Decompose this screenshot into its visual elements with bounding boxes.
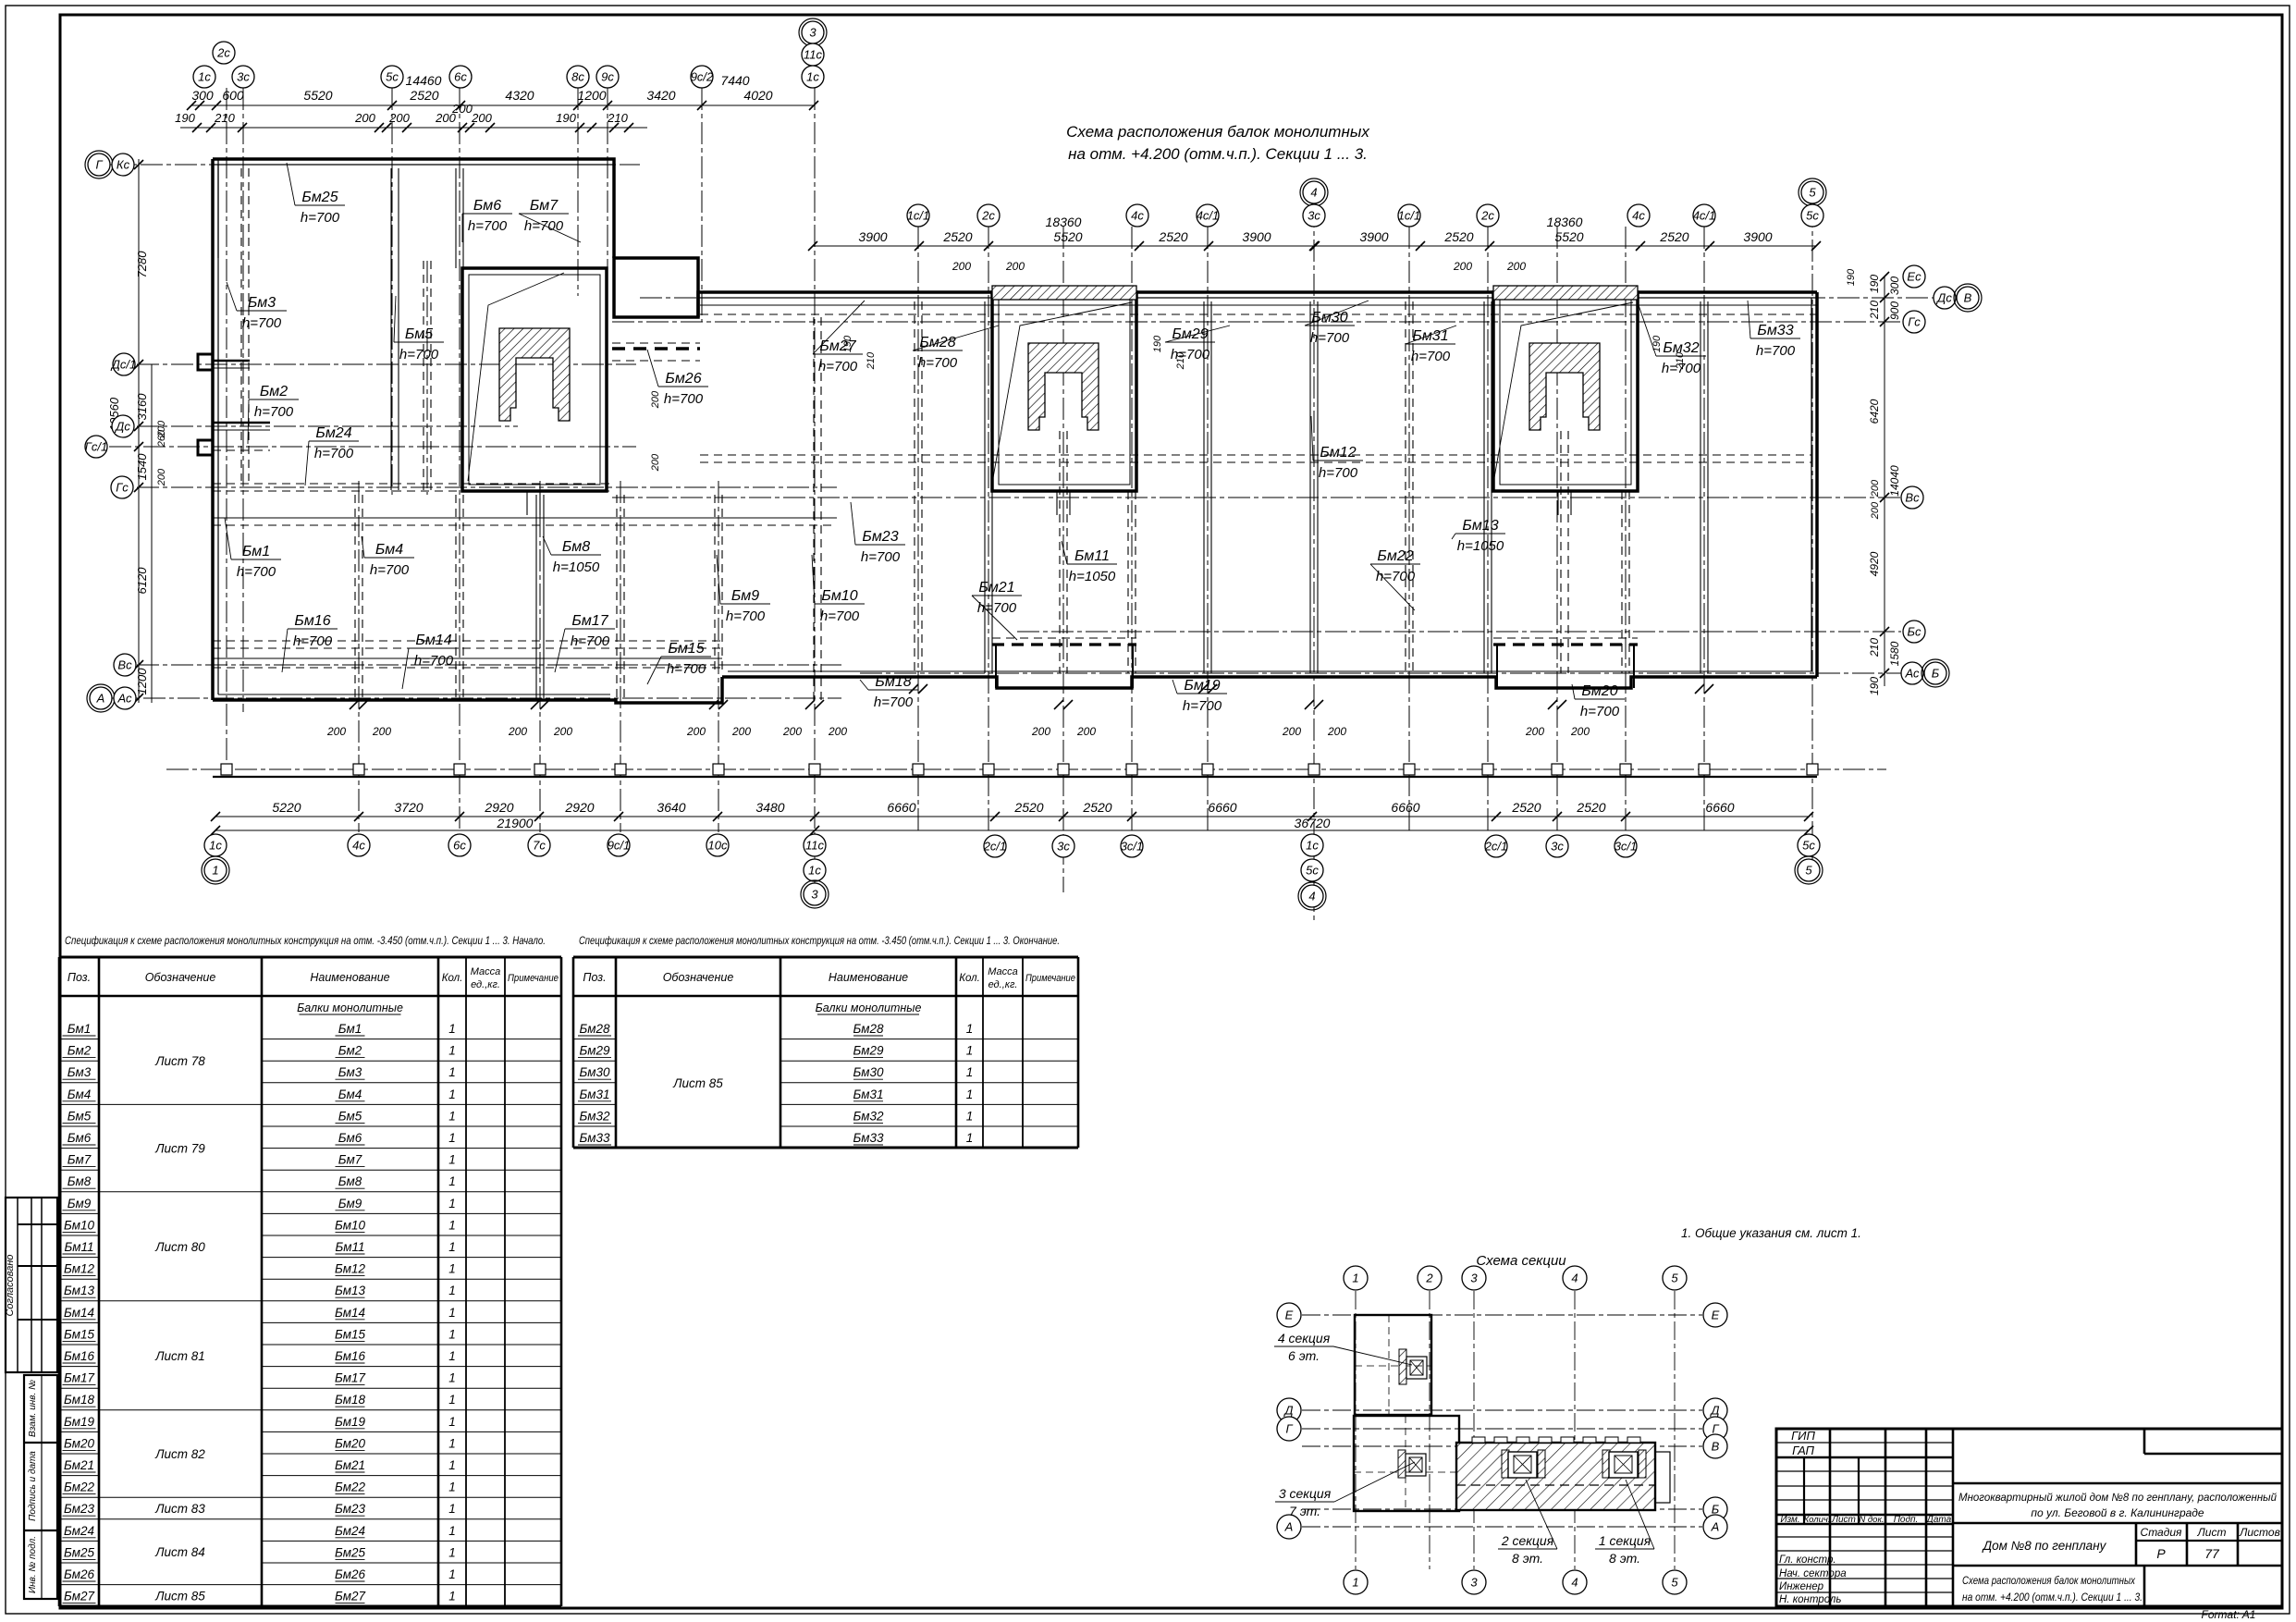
- svg-text:Бм4: Бм4: [68, 1087, 92, 1101]
- svg-text:5520: 5520: [1554, 229, 1583, 244]
- svg-text:1: 1: [448, 1481, 456, 1494]
- svg-text:190: 190: [1651, 335, 1663, 352]
- svg-text:200: 200: [372, 725, 391, 738]
- svg-text:Бм20: Бм20: [1581, 683, 1617, 699]
- axis circles right: [1903, 265, 1925, 288]
- svg-text:Лист 80: Лист 80: [154, 1240, 205, 1254]
- svg-text:Д: Д: [1709, 1404, 1719, 1418]
- svg-text:Дс/1: Дс/1: [110, 358, 137, 372]
- svg-text:Бм18: Бм18: [64, 1393, 95, 1407]
- svg-text:21900: 21900: [497, 816, 534, 830]
- svg-text:Бм5: Бм5: [405, 326, 433, 342]
- svg-text:8 эт.: 8 эт.: [1609, 1551, 1640, 1566]
- svg-text:h=700: h=700: [468, 218, 508, 234]
- svg-text:Г: Г: [1285, 1422, 1293, 1436]
- svg-text:1: 1: [448, 1262, 456, 1276]
- svg-text:3420: 3420: [646, 88, 675, 103]
- svg-text:1c: 1c: [198, 70, 211, 84]
- left part beam lines at Vc axis: [213, 657, 722, 659]
- svg-text:18360: 18360: [1046, 215, 1082, 229]
- svg-text:1c: 1c: [808, 864, 821, 878]
- svg-text:Ас: Ас: [117, 692, 132, 706]
- svg-text:1: 1: [448, 1218, 456, 1232]
- svg-text:h=700: h=700: [1580, 704, 1620, 719]
- svg-text:Бм21: Бм21: [335, 1458, 365, 1472]
- svg-text:Бм23: Бм23: [862, 529, 898, 545]
- svg-text:1: 1: [448, 1044, 456, 1058]
- svg-text:Бм31: Бм31: [579, 1087, 609, 1101]
- svg-text:Бс: Бс: [1908, 625, 1922, 639]
- svg-text:Format: A1: Format: A1: [2202, 1608, 2256, 1621]
- svg-text:h=700: h=700: [726, 608, 766, 624]
- svg-text:1: 1: [448, 1590, 456, 1604]
- svg-text:Бм12: Бм12: [64, 1262, 95, 1276]
- scheme axis circles: [1344, 1266, 1368, 1290]
- svg-text:Бм1: Бм1: [242, 544, 270, 559]
- svg-text:Лист 85: Лист 85: [154, 1589, 205, 1603]
- svg-text:Бм30: Бм30: [853, 1065, 884, 1079]
- terrace edge lines: [213, 776, 1817, 778]
- svg-text:h=700: h=700: [370, 562, 410, 578]
- svg-text:200: 200: [1327, 725, 1346, 738]
- svg-text:1: 1: [448, 1415, 456, 1429]
- svg-text:Бм30: Бм30: [1311, 310, 1347, 326]
- svg-text:Бм17: Бм17: [64, 1371, 95, 1385]
- mid wall left section: [213, 517, 837, 519]
- svg-text:1: 1: [448, 1131, 456, 1145]
- svg-text:2520: 2520: [1511, 800, 1541, 815]
- svg-text:1: 1: [448, 1022, 456, 1036]
- svg-text:h=700: h=700: [861, 549, 901, 565]
- svg-text:3900: 3900: [858, 229, 887, 244]
- svg-text:210: 210: [607, 111, 628, 125]
- svg-text:3720: 3720: [394, 800, 423, 815]
- svg-text:Наименование: Наименование: [310, 971, 389, 984]
- svg-text:Бм7: Бм7: [530, 198, 559, 214]
- svg-text:3: 3: [811, 888, 818, 902]
- svg-text:4: 4: [1571, 1576, 1578, 1590]
- svg-text:h=700: h=700: [314, 446, 354, 461]
- svg-text:200: 200: [1282, 725, 1301, 738]
- svg-text:Бм5: Бм5: [68, 1109, 92, 1123]
- svg-text:Бм2: Бм2: [338, 1044, 362, 1058]
- svg-text:1c: 1c: [1306, 839, 1319, 853]
- south wall left part: [213, 677, 722, 703]
- svg-text:Спецификация к схеме расположе: Спецификация к схеме расположения моноли…: [65, 934, 546, 947]
- svg-text:Бм25: Бм25: [335, 1545, 366, 1559]
- svg-text:200: 200: [650, 390, 661, 409]
- scheme: sections 1-2 hatched block: [1456, 1443, 1655, 1510]
- svg-text:Бм28: Бм28: [579, 1022, 610, 1036]
- lower axis with node squares: [166, 768, 1886, 770]
- svg-text:2c/1: 2c/1: [1484, 840, 1508, 854]
- svg-text:200: 200: [686, 725, 706, 738]
- svg-text:Подп.: Подп.: [1894, 1515, 1919, 1525]
- hatched band over core s1: [1493, 286, 1638, 300]
- svg-text:h=700: h=700: [414, 653, 454, 669]
- svg-text:300: 300: [1888, 276, 1901, 295]
- svg-text:Инженер: Инженер: [1779, 1581, 1824, 1592]
- svg-text:Бм28: Бм28: [853, 1022, 884, 1036]
- svg-text:Бм6: Бм6: [68, 1131, 92, 1145]
- svg-text:3: 3: [1470, 1576, 1478, 1590]
- svg-text:4320: 4320: [505, 88, 534, 103]
- svg-text:5c: 5c: [1802, 839, 1815, 853]
- svg-text:3c/1: 3c/1: [1615, 840, 1638, 854]
- svg-text:Бм16: Бм16: [64, 1349, 95, 1363]
- svg-text:11c: 11c: [805, 839, 824, 853]
- vertical axes: [226, 88, 227, 772]
- svg-text:Бм4: Бм4: [375, 542, 403, 558]
- svg-text:Кол.: Кол.: [959, 973, 980, 984]
- svg-text:ГИП: ГИП: [1791, 1429, 1815, 1443]
- corridor south dashed rails in wing: [700, 454, 1812, 456]
- svg-text:Кс: Кс: [117, 158, 130, 172]
- svg-text:Подпись и дата: Подпись и дата: [28, 1451, 38, 1521]
- svg-text:Бм25: Бм25: [64, 1545, 95, 1559]
- svg-text:190: 190: [175, 111, 195, 125]
- svg-text:Бм21: Бм21: [64, 1458, 94, 1472]
- svg-text:200: 200: [1453, 260, 1472, 273]
- svg-text:8 эт.: 8 эт.: [1512, 1551, 1543, 1566]
- svg-text:h=700: h=700: [667, 661, 706, 677]
- svg-text:14040: 14040: [1888, 465, 1901, 497]
- svg-text:200: 200: [354, 111, 375, 125]
- right vertical dims: [1884, 276, 1885, 686]
- svg-text:Бм17: Бм17: [335, 1371, 366, 1385]
- svg-text:5: 5: [1805, 864, 1812, 878]
- svg-text:2520: 2520: [1576, 800, 1605, 815]
- svg-text:Бм11: Бм11: [335, 1240, 364, 1254]
- svg-text:6660: 6660: [887, 800, 915, 815]
- svg-text:ед.,кг.: ед.,кг.: [471, 979, 500, 990]
- svg-text:200: 200: [828, 725, 847, 738]
- svg-text:210: 210: [1868, 638, 1881, 657]
- svg-text:200: 200: [782, 725, 802, 738]
- svg-text:Бм11: Бм11: [1074, 548, 1110, 564]
- svg-text:Лист 84: Лист 84: [154, 1545, 205, 1559]
- svg-text:3480: 3480: [755, 800, 784, 815]
- svg-text:3c: 3c: [237, 70, 250, 84]
- svg-text:8c: 8c: [571, 70, 584, 84]
- spec table frame: [58, 957, 61, 1606]
- svg-text:Бм11: Бм11: [64, 1240, 93, 1254]
- svg-text:h=700: h=700: [1310, 330, 1350, 346]
- svg-text:3900: 3900: [1359, 229, 1388, 244]
- svg-text:1: 1: [448, 1087, 456, 1101]
- svg-text:Бм20: Бм20: [335, 1436, 366, 1450]
- svg-text:Ас: Ас: [1904, 667, 1920, 681]
- wing north wall: [698, 292, 992, 317]
- svg-text:2920: 2920: [564, 800, 594, 815]
- svg-text:1: 1: [966, 1065, 974, 1079]
- svg-text:Дс: Дс: [1935, 291, 1952, 305]
- svg-text:3900: 3900: [1743, 229, 1772, 244]
- svg-text:Бм7: Бм7: [68, 1153, 92, 1167]
- svg-text:Бм1: Бм1: [68, 1022, 92, 1036]
- left vertical dims: [138, 159, 140, 703]
- svg-text:Бм14: Бм14: [64, 1306, 94, 1320]
- svg-text:1: 1: [448, 1567, 456, 1581]
- svg-text:Е: Е: [1712, 1309, 1720, 1322]
- svg-text:1c: 1c: [209, 839, 222, 853]
- svg-text:1: 1: [966, 1131, 974, 1145]
- svg-text:h=700: h=700: [293, 633, 333, 649]
- svg-text:2 секция: 2 секция: [1501, 1533, 1554, 1548]
- svg-text:Схема секции: Схема секции: [1476, 1253, 1566, 1269]
- svg-text:h=700: h=700: [818, 359, 858, 375]
- bottom dims right group: [815, 816, 1809, 817]
- svg-text:2520: 2520: [942, 229, 972, 244]
- svg-text:200: 200: [1005, 260, 1025, 273]
- svg-text:Лист 83: Лист 83: [154, 1502, 205, 1516]
- svg-text:h=1050: h=1050: [1069, 569, 1116, 584]
- svg-text:Бм25: Бм25: [301, 190, 338, 205]
- axis circles left: [88, 154, 110, 176]
- svg-text:Поз.: Поз.: [583, 971, 606, 984]
- svg-text:7c: 7c: [533, 839, 546, 853]
- svg-text:1: 1: [448, 1349, 456, 1363]
- svg-text:5520: 5520: [303, 88, 332, 103]
- svg-text:Бм3: Бм3: [68, 1065, 92, 1079]
- svg-text:Р: Р: [2156, 1546, 2166, 1561]
- svg-text:Лист: Лист: [1831, 1515, 1856, 1525]
- bottom dims left group: [215, 816, 815, 817]
- svg-text:Бм27: Бм27: [335, 1590, 366, 1604]
- svg-text:h=700: h=700: [664, 391, 704, 407]
- svg-text:Бм30: Бм30: [579, 1065, 610, 1079]
- svg-text:2: 2: [1425, 1272, 1433, 1285]
- svg-text:1: 1: [966, 1109, 974, 1123]
- svg-text:200: 200: [451, 102, 473, 116]
- svg-text:11c: 11c: [804, 48, 822, 62]
- block over axis 6c-9c (Bm6/Bm7 block): [614, 258, 698, 317]
- svg-text:Нач. сектора: Нач. сектора: [1779, 1568, 1847, 1579]
- svg-text:3c/1: 3c/1: [1121, 840, 1144, 854]
- svg-text:Бм6: Бм6: [473, 198, 501, 214]
- svg-text:Взам. инв. №: Взам. инв. №: [28, 1380, 38, 1437]
- svg-text:200: 200: [326, 725, 346, 738]
- svg-text:Г: Г: [95, 158, 103, 172]
- side stamp: soglasovano block: [6, 1198, 57, 1372]
- svg-text:210: 210: [1868, 301, 1881, 320]
- svg-text:Бм9: Бм9: [68, 1197, 92, 1210]
- svg-text:Бм15: Бм15: [64, 1327, 95, 1341]
- svg-text:4: 4: [1308, 890, 1315, 903]
- svg-text:Бм16: Бм16: [335, 1349, 366, 1363]
- svg-text:200: 200: [952, 260, 971, 273]
- scheme: section 4 block: [1355, 1315, 1431, 1415]
- svg-text:h=700: h=700: [1319, 465, 1358, 481]
- svg-text:Бм27: Бм27: [64, 1590, 95, 1604]
- elevator core section 3: [462, 268, 607, 491]
- svg-text:1: 1: [448, 1240, 456, 1254]
- svg-text:1: 1: [448, 1524, 456, 1538]
- svg-text:Бм24: Бм24: [335, 1524, 365, 1538]
- svg-text:Спецификация к схеме расположе: Спецификация к схеме расположения моноли…: [579, 934, 1060, 947]
- svg-text:Бм24: Бм24: [64, 1524, 94, 1538]
- svg-text:Бм19: Бм19: [1184, 678, 1220, 694]
- corridor rails top wing (Bm27..Bm33 double thin): [700, 304, 1817, 306]
- svg-text:2520: 2520: [1082, 800, 1111, 815]
- svg-text:5: 5: [1809, 186, 1816, 200]
- svg-text:5c: 5c: [386, 70, 399, 84]
- svg-text:3160: 3160: [135, 393, 149, 421]
- side stamp: inv blocks: [24, 1375, 57, 1599]
- svg-text:Бм7: Бм7: [338, 1153, 362, 1167]
- wing south wall with balcony notches: [722, 677, 1817, 688]
- inner thin faces of south walls: [218, 694, 610, 695]
- svg-text:В: В: [1712, 1440, 1720, 1454]
- svg-text:900: 900: [1888, 301, 1901, 320]
- svg-text:3c: 3c: [1057, 840, 1070, 854]
- balcony dashed pair left lower part: [213, 640, 721, 642]
- svg-text:h=1050: h=1050: [1457, 538, 1504, 554]
- svg-text:6660: 6660: [1391, 800, 1419, 815]
- svg-text:h=700: h=700: [242, 315, 282, 331]
- svg-text:Обозначение: Обозначение: [145, 971, 216, 984]
- svg-text:Колич.: Колич.: [1804, 1515, 1831, 1525]
- svg-text:h=700: h=700: [977, 600, 1017, 616]
- svg-text:Бм12: Бм12: [1320, 445, 1356, 461]
- svg-text:200: 200: [1506, 260, 1526, 273]
- svg-text:9c/1: 9c/1: [608, 839, 631, 853]
- svg-text:Бм8: Бм8: [338, 1174, 362, 1188]
- west wall jogs: [198, 354, 213, 370]
- svg-text:Бм26: Бм26: [335, 1567, 366, 1581]
- svg-text:1: 1: [448, 1153, 456, 1167]
- core diagonals s3: [468, 273, 564, 481]
- svg-text:Бм33: Бм33: [579, 1131, 610, 1145]
- svg-text:Наименование: Наименование: [829, 971, 908, 984]
- svg-text:Балки монолитные: Балки монолитные: [297, 1001, 403, 1014]
- svg-text:Бм31: Бм31: [853, 1087, 883, 1101]
- svg-text:6420: 6420: [1868, 399, 1881, 424]
- svg-text:Бм10: Бм10: [64, 1218, 95, 1232]
- svg-text:h=700: h=700: [1411, 349, 1451, 364]
- svg-text:1: 1: [448, 1306, 456, 1320]
- svg-text:на отм. +4.200 (отм.ч.п.). Сек: на отм. +4.200 (отм.ч.п.). Секции 1 ... …: [1068, 145, 1368, 163]
- svg-text:Бм26: Бм26: [64, 1567, 95, 1581]
- svg-text:1c/1: 1c/1: [1398, 209, 1421, 223]
- svg-text:Бм2: Бм2: [260, 384, 288, 399]
- svg-text:Бм13: Бм13: [335, 1284, 366, 1297]
- svg-text:Гл. констр.: Гл. констр.: [1779, 1554, 1836, 1566]
- horizontal axes: [106, 164, 640, 166]
- svg-text:Бм3: Бм3: [338, 1065, 362, 1079]
- svg-text:Листов: Листов: [2239, 1526, 2280, 1539]
- svg-text:1200: 1200: [135, 668, 149, 695]
- svg-text:200: 200: [731, 725, 751, 738]
- svg-text:Бм32: Бм32: [853, 1109, 884, 1123]
- svg-text:Лист 82: Лист 82: [154, 1447, 205, 1461]
- svg-text:Схема расположения балок монол: Схема расположения балок монолитных: [1962, 1574, 2136, 1587]
- svg-text:9c: 9c: [601, 70, 614, 84]
- svg-text:200: 200: [156, 468, 167, 486]
- balcony inner dashed walls wing: [992, 643, 1136, 645]
- svg-text:Бм15: Бм15: [335, 1327, 366, 1341]
- svg-text:Бм5: Бм5: [338, 1109, 362, 1123]
- svg-text:Ес: Ес: [1907, 270, 1922, 284]
- svg-text:14460: 14460: [406, 73, 442, 88]
- svg-text:Бм1: Бм1: [338, 1022, 362, 1036]
- svg-text:h=700: h=700: [1171, 347, 1210, 362]
- svg-text:6660: 6660: [1208, 800, 1236, 815]
- svg-text:1: 1: [448, 1502, 456, 1516]
- svg-text:6660: 6660: [1705, 800, 1734, 815]
- svg-text:Лист: Лист: [2197, 1526, 2227, 1539]
- svg-text:190: 190: [556, 111, 576, 125]
- svg-text:7 эт.: 7 эт.: [1289, 1504, 1320, 1518]
- svg-text:4c/1: 4c/1: [1197, 209, 1220, 223]
- svg-text:2520: 2520: [1013, 800, 1043, 815]
- svg-text:1: 1: [1352, 1272, 1358, 1285]
- svg-text:N док.: N док.: [1859, 1515, 1884, 1525]
- balcony dashed edge under Bm26: [612, 347, 700, 350]
- svg-text:Бм17: Бм17: [571, 613, 608, 629]
- svg-text:Согласовано: Согласовано: [5, 1254, 16, 1316]
- svg-text:1: 1: [966, 1087, 974, 1101]
- svg-text:Вс: Вс: [117, 658, 132, 672]
- svg-text:Е: Е: [1285, 1309, 1294, 1322]
- svg-text:1: 1: [448, 1458, 456, 1472]
- svg-text:Лист 81: Лист 81: [154, 1349, 205, 1363]
- axis circles top: [193, 66, 215, 88]
- svg-text:Бм14: Бм14: [415, 633, 451, 648]
- svg-text:Бм29: Бм29: [1172, 326, 1208, 342]
- svg-text:по ул. Беговой в г. Калинингра: по ул. Беговой в г. Калининграде: [2031, 1506, 2204, 1519]
- svg-text:h=700: h=700: [254, 404, 294, 420]
- svg-text:6c: 6c: [453, 839, 466, 853]
- svg-text:h=700: h=700: [820, 608, 860, 624]
- svg-text:200: 200: [508, 725, 527, 738]
- svg-text:Поз.: Поз.: [68, 971, 91, 984]
- svg-text:600: 600: [222, 88, 244, 103]
- svg-text:1: 1: [966, 1044, 974, 1058]
- svg-text:Многоквартирный жилой дом №8 п: Многоквартирный жилой дом №8 по генплану…: [1958, 1491, 2277, 1504]
- hatched band over core s2: [992, 286, 1136, 300]
- svg-text:Гс: Гс: [116, 481, 129, 495]
- svg-text:18360: 18360: [1547, 215, 1583, 229]
- svg-text:Лист 85: Лист 85: [672, 1076, 723, 1090]
- svg-text:Бм4: Бм4: [338, 1087, 362, 1101]
- svg-text:2c: 2c: [216, 46, 230, 60]
- svg-text:А: А: [96, 692, 105, 706]
- svg-text:2520: 2520: [1659, 229, 1688, 244]
- svg-text:200: 200: [388, 111, 410, 125]
- svg-text:200: 200: [1870, 501, 1881, 520]
- svg-text:1: 1: [448, 1197, 456, 1210]
- svg-text:Бм22: Бм22: [64, 1481, 95, 1494]
- svg-text:300: 300: [191, 88, 214, 103]
- svg-text:h=700: h=700: [874, 694, 914, 710]
- svg-text:200: 200: [1525, 725, 1544, 738]
- svg-text:Бм3: Бм3: [248, 295, 276, 311]
- svg-text:3c: 3c: [1551, 840, 1564, 854]
- svg-text:Бм6: Бм6: [338, 1131, 362, 1145]
- svg-text:1: 1: [1352, 1576, 1358, 1590]
- svg-text:Бм23: Бм23: [335, 1502, 366, 1516]
- svg-text:Бм8: Бм8: [562, 539, 590, 555]
- svg-text:200: 200: [1870, 479, 1881, 498]
- svg-text:Гс: Гс: [1908, 315, 1921, 329]
- svg-text:h=700: h=700: [1756, 343, 1796, 359]
- svg-text:4920: 4920: [1868, 551, 1881, 576]
- svg-text:h=700: h=700: [1183, 698, 1222, 714]
- svg-text:1: 1: [448, 1327, 456, 1341]
- svg-text:4: 4: [1571, 1272, 1578, 1285]
- svg-text:Бм9: Бм9: [731, 588, 759, 604]
